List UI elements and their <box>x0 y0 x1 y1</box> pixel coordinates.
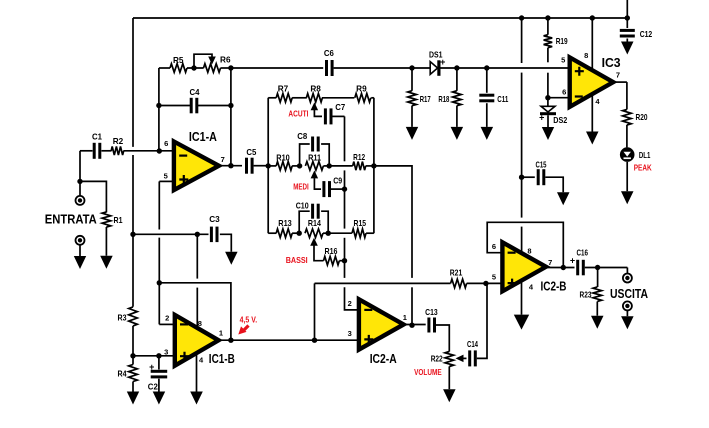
svg-text:C5: C5 <box>246 147 256 157</box>
svg-text:R19: R19 <box>556 36 568 46</box>
svg-text:4,5 V.: 4,5 V. <box>240 315 258 325</box>
svg-text:R3: R3 <box>118 312 127 322</box>
svg-text:C14: C14 <box>467 339 478 349</box>
svg-text:R21: R21 <box>450 267 463 277</box>
svg-text:R6: R6 <box>220 55 231 65</box>
svg-text:R5: R5 <box>173 55 184 65</box>
svg-text:2: 2 <box>348 299 352 308</box>
svg-text:C12: C12 <box>640 29 653 39</box>
svg-text:6: 6 <box>164 139 168 148</box>
svg-text:1: 1 <box>403 313 407 322</box>
svg-text:PEAK: PEAK <box>634 163 653 173</box>
svg-text:C10: C10 <box>296 200 309 210</box>
svg-text:6: 6 <box>492 242 496 251</box>
svg-text:R17: R17 <box>420 94 431 104</box>
svg-text:R11: R11 <box>308 153 321 163</box>
svg-text:C11: C11 <box>497 94 508 104</box>
svg-text:IC1-B: IC1-B <box>209 352 235 366</box>
svg-text:R2: R2 <box>113 136 124 146</box>
svg-text:C16: C16 <box>576 247 588 257</box>
svg-text:MEDI: MEDI <box>293 181 309 191</box>
svg-text:C3: C3 <box>209 214 220 224</box>
svg-text:R8: R8 <box>310 83 321 93</box>
svg-text:ENTRATA: ENTRATA <box>45 211 98 226</box>
svg-text:3: 3 <box>348 329 352 338</box>
svg-text:7: 7 <box>221 155 225 164</box>
svg-text:R15: R15 <box>354 218 367 228</box>
svg-text:R20: R20 <box>636 112 648 122</box>
svg-text:C9: C9 <box>333 175 342 185</box>
svg-text:3: 3 <box>164 348 168 357</box>
svg-text:8: 8 <box>198 319 202 328</box>
svg-text:2: 2 <box>165 314 169 323</box>
svg-text:R9: R9 <box>356 83 367 93</box>
svg-text:R23: R23 <box>580 289 592 299</box>
svg-text:8: 8 <box>584 51 588 60</box>
svg-text:C8: C8 <box>297 131 307 141</box>
svg-text:R22: R22 <box>431 353 443 363</box>
svg-text:R1: R1 <box>114 215 123 225</box>
svg-text:+: + <box>570 256 575 266</box>
svg-text:R4: R4 <box>118 369 127 379</box>
svg-text:R18: R18 <box>438 94 449 104</box>
svg-text:R7: R7 <box>278 83 289 93</box>
svg-text:1: 1 <box>219 328 223 337</box>
svg-text:C15: C15 <box>536 160 547 170</box>
svg-text:6: 6 <box>562 87 566 96</box>
svg-text:R10: R10 <box>276 153 290 163</box>
svg-text:DS2: DS2 <box>553 115 567 125</box>
svg-text:C4: C4 <box>190 87 200 97</box>
svg-text:5: 5 <box>164 172 168 181</box>
svg-text:5: 5 <box>561 55 565 64</box>
svg-text:R14: R14 <box>308 218 321 228</box>
svg-text:8: 8 <box>527 246 531 255</box>
svg-text:R12: R12 <box>353 152 365 162</box>
svg-text:IC3: IC3 <box>602 56 621 70</box>
svg-text:+: + <box>539 113 544 123</box>
svg-text:IC1-A: IC1-A <box>189 130 217 144</box>
svg-text:USCITA: USCITA <box>610 286 648 301</box>
svg-text:C1: C1 <box>92 132 102 142</box>
svg-text:5: 5 <box>492 273 496 282</box>
svg-text:C13: C13 <box>425 307 438 317</box>
svg-text:C2: C2 <box>148 381 158 391</box>
svg-text:IC2-A: IC2-A <box>370 352 397 366</box>
svg-text:7: 7 <box>548 258 552 267</box>
svg-text:R16: R16 <box>325 246 338 256</box>
svg-text:VOLUME: VOLUME <box>414 367 442 377</box>
svg-text:7: 7 <box>616 71 620 80</box>
svg-text:DL1: DL1 <box>639 150 651 160</box>
svg-text:+: + <box>149 362 154 372</box>
svg-text:+: + <box>440 57 445 67</box>
svg-text:C6: C6 <box>324 48 334 58</box>
svg-text:ACUTI: ACUTI <box>288 109 308 119</box>
svg-text:BASSI: BASSI <box>286 255 308 265</box>
svg-text:R13: R13 <box>278 218 292 228</box>
svg-text:IC2-B: IC2-B <box>541 279 567 293</box>
svg-text:C7: C7 <box>335 102 345 112</box>
